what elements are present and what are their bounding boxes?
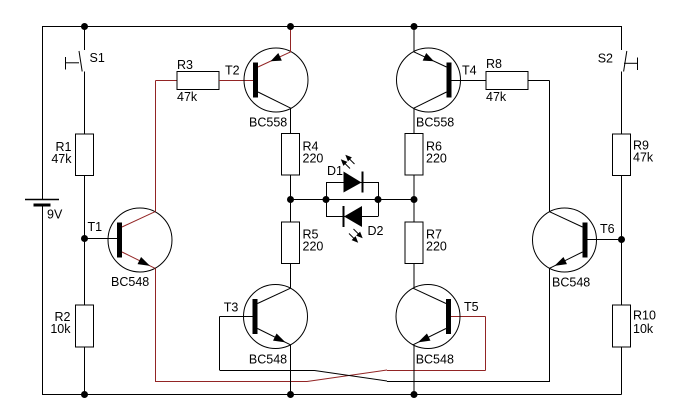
svg-text:220: 220 — [303, 152, 324, 166]
wire S1 to R1 — [84, 72, 86, 135]
wire S1 top — [84, 26, 86, 50]
wire R6 to mid rail — [413, 175, 415, 199]
wire black crossing diagonal — [315, 371, 388, 382]
svg-text:T3: T3 — [224, 300, 239, 314]
resistor R1 — [51, 134, 93, 176]
svg-text:S1: S1 — [90, 51, 105, 65]
wire T4 collector to R6 — [413, 108, 415, 134]
wire R4 to mid rail — [290, 175, 292, 199]
svg-text:BC558: BC558 — [249, 115, 287, 129]
svg-text:10k: 10k — [50, 322, 71, 336]
svg-text:220: 220 — [303, 240, 324, 254]
svg-text:R8: R8 — [486, 57, 502, 71]
svg-text:10k: 10k — [633, 322, 654, 336]
svg-text:BC558: BC558 — [416, 115, 454, 129]
wire red crossing diagonal — [307, 370, 387, 382]
svg-text:R10: R10 — [633, 309, 656, 323]
wire red T2 emitter to top rail — [290, 26, 292, 52]
wire T1 base — [85, 238, 118, 240]
wire black bottom horizontal left — [220, 370, 315, 372]
wire LED bridge bottom — [326, 216, 378, 218]
svg-text:S2: S2 — [598, 52, 613, 66]
wire mid rail to R5 — [290, 199, 292, 222]
wire R10 to bottom rail — [621, 347, 623, 395]
svg-text:R3: R3 — [177, 58, 193, 72]
wire red to T5 base — [387, 317, 486, 371]
svg-text:9V: 9V — [47, 208, 63, 222]
wire R7 to T5 collector — [413, 264, 415, 289]
wire LED bridge right — [378, 182, 380, 217]
transistor T5 BC548 NPN — [396, 285, 479, 367]
wire top rail — [42, 26, 622, 28]
wire red R3 to T2 base — [219, 80, 254, 82]
resistor R4 — [282, 134, 324, 176]
node T6 base junction — [618, 236, 625, 243]
resistor R5 — [282, 222, 324, 264]
svg-text:D1: D1 — [327, 164, 343, 178]
resistor R3 — [177, 58, 219, 104]
wire R5 to T3 collector — [290, 264, 292, 289]
wire black to T6 emitter — [549, 268, 551, 381]
svg-text:220: 220 — [426, 240, 447, 254]
wire T3 emitter to bottom rail — [290, 345, 292, 394]
resistor R7 — [405, 222, 447, 264]
node bottom rail R2 — [81, 391, 88, 398]
switch S1 — [66, 51, 105, 72]
wire T4 base to R8 — [450, 80, 487, 82]
wire red R3-left vertical — [155, 81, 157, 212]
wire S2 top — [621, 26, 623, 50]
svg-text:47k: 47k — [486, 90, 507, 104]
svg-text:47k: 47k — [633, 151, 654, 165]
LED D2 — [344, 206, 384, 243]
wire black bottom horizontal right — [387, 381, 550, 383]
svg-text:BC548: BC548 — [249, 352, 287, 366]
svg-text:T2: T2 — [225, 64, 240, 78]
svg-text:T1: T1 — [88, 220, 103, 234]
svg-text:T4: T4 — [462, 64, 477, 78]
svg-text:T6: T6 — [600, 222, 615, 236]
node top rail T4 — [411, 23, 418, 30]
svg-text:BC548: BC548 — [416, 353, 454, 367]
wire R2 to bottom rail — [84, 347, 86, 394]
wire red bottom horizontal — [155, 381, 307, 383]
wire LED bridge top — [326, 182, 378, 184]
svg-text:220: 220 — [426, 152, 447, 166]
node T1 base junction — [81, 235, 88, 242]
wire R1 to T1 base node — [84, 176, 86, 239]
wire T5 emitter to bottom rail — [413, 345, 415, 394]
wire LED bridge left — [326, 182, 328, 217]
resistor R2 — [50, 305, 93, 347]
wire bottom rail — [42, 394, 622, 396]
wire T2 collector to R4 — [290, 108, 292, 134]
svg-text:BC548: BC548 — [552, 276, 590, 290]
svg-text:47k: 47k — [177, 90, 198, 104]
svg-text:BC548: BC548 — [111, 275, 149, 289]
transistor T3 BC548 NPN — [224, 285, 308, 367]
wire T6 base — [587, 239, 622, 241]
wire red R3 left — [156, 80, 178, 82]
node bottom rail T5 — [411, 391, 418, 398]
node top rail S1 — [81, 23, 88, 30]
svg-text:47k: 47k — [51, 152, 72, 166]
resistor R6 — [405, 134, 447, 176]
wire left frame battery column top — [42, 26, 44, 199]
svg-text:T5: T5 — [464, 300, 479, 314]
node mid rail R4 R5 — [287, 196, 294, 203]
wire T6 base node to R10 — [621, 240, 623, 306]
wire middle rail — [291, 199, 415, 201]
transistor T6 BC548 NPN — [533, 208, 615, 290]
wire mid rail to R7 — [413, 199, 415, 222]
node bottom rail T3 — [287, 391, 294, 398]
wire red T5 base — [450, 316, 486, 318]
switch S2 — [598, 51, 638, 72]
transistor T4 BC558 PNP — [397, 48, 477, 129]
svg-text:D2: D2 — [368, 224, 384, 238]
resistor R8 — [486, 57, 528, 104]
resistor R9 — [613, 134, 654, 176]
wire red T1 emitter down — [155, 268, 157, 381]
battery 9V — [25, 200, 63, 222]
transistor T2 BC558 PNP — [225, 48, 308, 129]
node mid rail R6 R7 — [411, 196, 418, 203]
wire T3 base L-path — [220, 317, 253, 371]
wire R9 to T6 base node — [621, 176, 623, 240]
wire T4 emitter to top rail — [413, 26, 415, 52]
wire R8 right to T6 collector — [528, 81, 550, 212]
resistor R10 — [613, 305, 656, 347]
wire T1 base node to R2 — [84, 239, 86, 306]
node top rail T2 — [287, 23, 294, 30]
wire S2 to R9 — [621, 72, 623, 135]
transistor T1 BC548 NPN — [88, 208, 173, 289]
wire left frame battery column bottom — [42, 205, 44, 394]
LED D1 — [327, 155, 363, 193]
node mid rail LED left — [323, 196, 330, 203]
node mid rail LED right — [375, 196, 382, 203]
